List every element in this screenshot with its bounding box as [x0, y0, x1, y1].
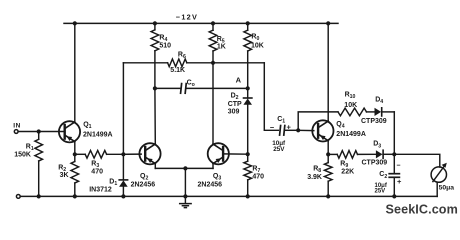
- capacitor C2 10uF 25V: [375, 154, 403, 196]
- resistor R7 470: [244, 154, 264, 196]
- wire Q3 base lead: [223, 153, 248, 155]
- junction rail/R4: [153, 21, 157, 25]
- capacitor C1 10uF 25V: [270, 116, 292, 153]
- wire -12V supply rail: [64, 22, 338, 24]
- resistor R5 1K: [209, 23, 226, 62]
- svg-text:2N2456: 2N2456: [131, 182, 156, 189]
- wire Q3 emitter: [212, 164, 214, 169]
- svg-text:510: 510: [159, 43, 171, 50]
- meter M1 50uA: [431, 163, 454, 192]
- resistor R8 3.9K: [307, 154, 332, 196]
- junction D1/ground bus: [121, 194, 125, 198]
- resistor R6 5.1K: [168, 51, 265, 74]
- wire Q1 collector to rail: [74, 23, 76, 122]
- wire Q3 collector column: [212, 63, 214, 144]
- svg-text:SeekIC.com: SeekIC.com: [386, 202, 458, 216]
- resistor R1 150K: [14, 132, 42, 197]
- diode D1 IN3712: [89, 154, 128, 196]
- svg-text:2N1499A: 2N1499A: [336, 131, 366, 138]
- capacitor Co: [181, 79, 195, 93]
- junction R4/Co tap: [153, 86, 157, 90]
- transistor Q2 2N2456: [139, 143, 160, 164]
- junction R1/bus: [37, 194, 41, 198]
- wire D4 down to output node: [393, 112, 395, 154]
- terminal IN input: [14, 130, 18, 134]
- junction rail/Q4 collector: [326, 21, 330, 25]
- wire Q2 collector to Co: [155, 87, 180, 89]
- resistor R3 470: [75, 151, 124, 176]
- svg-text:IN: IN: [13, 123, 21, 130]
- junction rail/Q1 collector: [73, 21, 77, 25]
- svg-text:3.9K: 3.9K: [307, 174, 322, 181]
- resistor R9 22K: [328, 151, 375, 176]
- wire Co to node A: [186, 87, 248, 89]
- wire Q1 emitter down: [74, 142, 76, 155]
- transistor Q4 2N1499A: [312, 120, 333, 141]
- ground: [180, 196, 191, 207]
- svg-text:2N1499A: 2N1499A: [83, 132, 113, 139]
- diode D2 CTP309: [228, 88, 252, 154]
- wire R6 line left corner: [123, 62, 167, 64]
- wire meter to bus: [436, 182, 438, 196]
- wire base node up and right to R10: [298, 112, 338, 130]
- svg-text:309: 309: [228, 109, 240, 116]
- svg-text:22K: 22K: [341, 168, 354, 175]
- svg-text:5.1K: 5.1K: [170, 67, 185, 74]
- wire to Q4 base: [298, 129, 314, 131]
- junction emitter bus: [183, 166, 187, 170]
- svg-text:−: −: [270, 123, 275, 132]
- wire Q4 emitter down: [327, 141, 329, 155]
- junction rail/R0: [246, 21, 250, 25]
- svg-text:10K: 10K: [344, 102, 357, 109]
- svg-text:−12V: −12V: [176, 13, 198, 22]
- junction Q4 base node: [296, 128, 300, 132]
- svg-text:CTP309: CTP309: [362, 160, 388, 167]
- junction bus/ground: [183, 194, 187, 198]
- junction IN/R1: [37, 129, 41, 133]
- junction R2/bus: [73, 194, 77, 198]
- wire ground bus: [20, 195, 437, 197]
- junction rail/R5: [211, 21, 215, 25]
- junction R7/bus: [246, 194, 250, 198]
- resistor R2 3K: [58, 154, 78, 196]
- svg-text:IN3712: IN3712: [89, 186, 112, 193]
- junction Q4 emitter/R8/R9: [326, 152, 330, 156]
- svg-text:2N2456: 2N2456: [198, 182, 223, 189]
- wire emitter bus: [155, 167, 213, 169]
- svg-text:470: 470: [91, 168, 103, 175]
- transistor Q3 2N2456: [208, 143, 229, 164]
- svg-text:50μa: 50μa: [439, 185, 455, 192]
- svg-text:CTP309: CTP309: [361, 118, 387, 125]
- wire to Q2 base: [123, 153, 141, 155]
- svg-text:3K: 3K: [60, 172, 69, 179]
- resistor R0 10K: [244, 23, 264, 88]
- svg-text:CTP: CTP: [228, 101, 242, 108]
- svg-text:470: 470: [252, 174, 264, 181]
- wire Q4 collector to rail: [327, 23, 329, 120]
- resistor R10 10K: [338, 91, 375, 115]
- junction R5/R6/Q3 collector: [211, 61, 215, 65]
- wire IN to Q1 base: [18, 131, 65, 133]
- transistor Q1 2N1499A: [59, 121, 80, 142]
- wire output node to meter: [394, 154, 440, 167]
- resistor R4 510: [151, 23, 171, 88]
- diode D3 CTP309: [362, 141, 395, 167]
- wire C1 to Q4 base node: [285, 129, 298, 131]
- wire to ground bus: [184, 168, 186, 196]
- wire Q2 emitter: [154, 164, 156, 169]
- junction Q3 base/D2/R7: [246, 152, 250, 156]
- wire down to Q2 collector: [154, 88, 156, 143]
- junction base node Q2/D1/feedback: [121, 152, 125, 156]
- svg-text:150K: 150K: [14, 151, 31, 158]
- svg-text:25V: 25V: [375, 188, 386, 194]
- wire feedback column: [122, 63, 124, 155]
- terminal bottom left: [16, 195, 20, 199]
- diode D4 CTP309: [361, 96, 394, 125]
- svg-text:−: −: [396, 163, 400, 170]
- junction node A: [246, 86, 250, 90]
- junction Q1 emitter/R2/R3: [73, 152, 77, 156]
- junction D3/D4/C2/meter node: [392, 152, 396, 156]
- svg-text:1K: 1K: [217, 44, 226, 51]
- svg-text:A: A: [236, 76, 242, 85]
- svg-text:10K: 10K: [251, 42, 264, 49]
- svg-text:25V: 25V: [273, 146, 285, 153]
- svg-text:+: +: [397, 177, 402, 186]
- junction R8/bus: [326, 194, 330, 198]
- wire R5 node to C1: [264, 63, 278, 131]
- junction C2/bus: [392, 194, 396, 198]
